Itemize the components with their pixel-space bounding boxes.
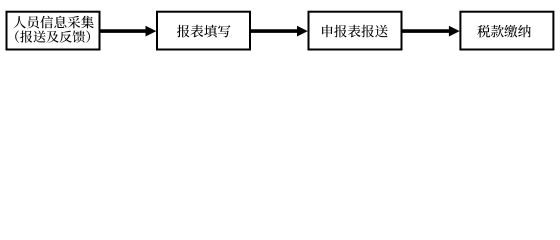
label text 申报表报送 (box3) [322, 25, 388, 38]
arrow 3 (box3 to box4) [403, 26, 460, 37]
label text （报送及反馈） (box1 line2) [15, 31, 90, 43]
label text 税款缴纳 (box4) [477, 25, 531, 38]
arrow 2 (box2 to box3) [251, 26, 308, 37]
process box 1 (人员信息采集 报送及反馈) [7, 12, 100, 50]
flowchart diagram: tax declaration process [0, 0, 560, 66]
arrow 1 (box1 to box2) [101, 26, 157, 37]
process box 2 (报表填写) [157, 12, 250, 50]
process box 3 (申报表报送) [309, 12, 402, 50]
label text 报表填写 (box2) [177, 25, 230, 38]
process box 4 (税款缴纳) [460, 12, 553, 50]
label text 人员信息采集 (box1 line1) [13, 16, 94, 29]
